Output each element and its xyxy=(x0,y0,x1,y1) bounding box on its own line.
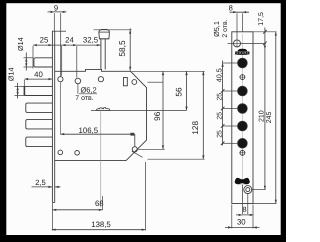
dim 68 line xyxy=(52,209,102,211)
cap top ext line xyxy=(94,29,132,31)
hook pivot circle xyxy=(132,147,137,152)
latch pin P0 Ø14 xyxy=(34,58,53,67)
dim 17,5 line xyxy=(264,28,266,48)
cam bar xyxy=(97,108,110,111)
ext S1 up xyxy=(236,13,238,39)
dim 106,5 line xyxy=(60,133,132,135)
ext line corner hole xyxy=(148,81,164,83)
svg-text:2,5: 2,5 xyxy=(35,178,46,187)
dim 56 line xyxy=(186,71,188,110)
svg-text:25: 25 xyxy=(216,93,223,101)
frame border left xyxy=(0,0,6,242)
cam axis line xyxy=(91,109,187,111)
svg-text:210: 210 xyxy=(258,110,265,122)
screw hole S1 Ø5,1 xyxy=(234,40,241,47)
svg-text:40: 40 xyxy=(34,70,43,79)
ext line pin0 tip xyxy=(32,46,34,69)
svg-text:Ø14: Ø14 xyxy=(16,37,25,51)
lock body outline xyxy=(55,69,147,160)
svg-text:Ø6,2: Ø6,2 xyxy=(80,86,96,95)
svg-text:58,5: 58,5 xyxy=(117,40,127,57)
svg-text:25: 25 xyxy=(40,36,49,45)
svg-text:Ø5,1: Ø5,1 xyxy=(212,21,221,37)
deadbolt pin P4 Ø14 xyxy=(26,137,53,147)
ext bottom edge xyxy=(253,203,276,205)
dim 40 ext xyxy=(23,80,25,87)
svg-text:25: 25 xyxy=(216,130,223,138)
hole H1 Ø6,2 xyxy=(58,77,63,82)
frame border right xyxy=(281,0,286,242)
svg-text:245: 245 xyxy=(266,111,273,123)
latch bolt front view xyxy=(235,178,250,185)
ext plate left down xyxy=(231,205,233,229)
hook link line xyxy=(134,134,136,147)
leader S1 xyxy=(228,42,234,44)
svg-text:8: 8 xyxy=(229,3,233,12)
ext plate right down xyxy=(252,205,254,229)
svg-text:40,5: 40,5 xyxy=(215,68,224,82)
chain dim line xyxy=(222,61,224,146)
dim Ø14 pin1 line xyxy=(17,83,19,99)
faceplate top end xyxy=(52,30,66,32)
dim 58,5 line xyxy=(129,28,131,71)
ext line c xyxy=(61,46,63,76)
slot in body top right xyxy=(124,78,128,86)
dim 9 line xyxy=(48,11,67,13)
dim 8 top line xyxy=(230,11,250,13)
ext hole1 down xyxy=(59,82,61,134)
leader hole2 xyxy=(77,84,79,94)
pin hole at y=108.5 xyxy=(238,104,248,114)
chain leader y=63.0 xyxy=(223,62,237,64)
hook diagonal xyxy=(132,151,143,157)
logo banner xyxy=(238,49,248,51)
ext top edge xyxy=(253,31,276,33)
dim 96 bottom ext xyxy=(138,148,165,150)
dim Ø14 pin0 line xyxy=(25,53,27,71)
body top ext right xyxy=(132,70,205,72)
deadbolt pin P1 Ø14 xyxy=(25,86,53,95)
ext S1 right xyxy=(241,42,266,44)
chain leader y=91.0 xyxy=(223,90,237,92)
hole H4 Ø6,2 xyxy=(132,80,137,85)
hole H5 Ø6,2 xyxy=(58,150,63,155)
dim 30 line xyxy=(225,226,260,228)
post stem left xyxy=(100,39,102,70)
ext line d xyxy=(76,46,78,78)
small hole at y=77.1 xyxy=(240,75,245,80)
faceplate center line xyxy=(241,34,243,201)
faceplate back edge (side view) xyxy=(54,31,56,203)
deadbolt pin P2 Ø14 xyxy=(26,103,53,112)
dim 128 line xyxy=(202,71,204,159)
svg-text:17,5: 17,5 xyxy=(258,12,265,26)
hole H2 Ø6,2 xyxy=(75,78,81,84)
dim 96 line xyxy=(162,71,164,149)
svg-text:8: 8 xyxy=(242,205,246,214)
cylinder axis line xyxy=(100,111,102,207)
hole H6 Ø6,2 xyxy=(75,151,80,156)
dim 138,5 line xyxy=(52,229,146,231)
svg-text:106,5: 106,5 xyxy=(79,126,99,135)
dim 68 ext right up xyxy=(102,196,104,210)
dim 210 line xyxy=(264,43,266,189)
body bottom ext right xyxy=(148,158,205,160)
svg-text:30: 30 xyxy=(237,218,246,227)
svg-text:9: 9 xyxy=(54,3,58,12)
dim row line xyxy=(33,44,101,46)
chain leader y=108.5 xyxy=(223,108,237,110)
faceplate bottom end xyxy=(52,202,54,204)
faceplate front edge (side view) xyxy=(51,31,53,203)
dim 138,5 ext left xyxy=(51,203,53,231)
post cap xyxy=(99,30,110,39)
pin hole at y=126.0 xyxy=(238,121,248,131)
dim 2,5 line xyxy=(32,186,53,188)
svg-text:138,5: 138,5 xyxy=(91,220,111,229)
frame border top xyxy=(0,0,286,3)
dim 8 bottom line xyxy=(236,214,254,216)
small hole at y=152.8 xyxy=(240,150,245,155)
dim 9 ext right xyxy=(60,13,62,76)
chain leader y=126.0 xyxy=(223,125,237,127)
svg-text:25: 25 xyxy=(216,112,223,120)
faceplate front view outline xyxy=(232,32,253,204)
ext S2 right xyxy=(251,189,265,191)
svg-text:128: 128 xyxy=(191,121,200,135)
dim 9 ext left xyxy=(53,13,55,31)
svg-text:24: 24 xyxy=(65,36,74,45)
svg-text:Ø14: Ø14 xyxy=(6,68,15,82)
pin hole at y=63.0 xyxy=(238,58,248,68)
dim 245 line xyxy=(275,32,277,204)
pin hole at y=91.0 xyxy=(238,86,248,96)
dim 138,5 ext right xyxy=(145,162,147,231)
pin hole at y=143.3 xyxy=(238,138,248,148)
screw hole S2 Ø5,1 xyxy=(244,186,252,194)
dim 40 line xyxy=(24,78,52,80)
svg-text:56: 56 xyxy=(174,87,183,97)
dim 106,5 end marker xyxy=(130,133,134,136)
chain leader y=143.3 xyxy=(223,142,237,144)
svg-text:2 отв.: 2 отв. xyxy=(222,19,229,37)
post cap inner line xyxy=(99,31,110,33)
svg-text:96: 96 xyxy=(153,111,162,121)
post stem right xyxy=(104,39,106,70)
ext S2 down xyxy=(247,193,249,214)
svg-text:7 отв.: 7 отв. xyxy=(75,95,94,102)
pin P1 end face xyxy=(23,86,25,95)
ext centerline up xyxy=(241,13,243,31)
hole H3 Ø6,2 xyxy=(98,77,103,82)
ext latch center down xyxy=(241,185,243,214)
deadbolt pin P3 Ø14 xyxy=(26,120,53,129)
svg-text:32,5: 32,5 xyxy=(83,36,99,45)
frame border bottom xyxy=(0,235,286,242)
